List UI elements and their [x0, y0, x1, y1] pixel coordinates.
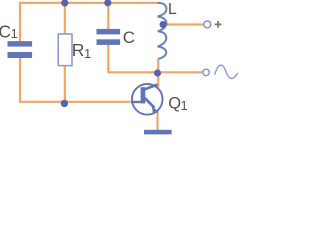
- svg-text:Q: Q: [168, 95, 181, 113]
- svg-text:1: 1: [181, 99, 188, 113]
- svg-text:1: 1: [11, 27, 18, 41]
- svg-text:C: C: [0, 22, 11, 42]
- svg-text:L: L: [168, 1, 177, 18]
- svg-text:R: R: [72, 40, 85, 60]
- svg-text:1: 1: [84, 46, 91, 61]
- svg-text:C: C: [123, 28, 135, 47]
